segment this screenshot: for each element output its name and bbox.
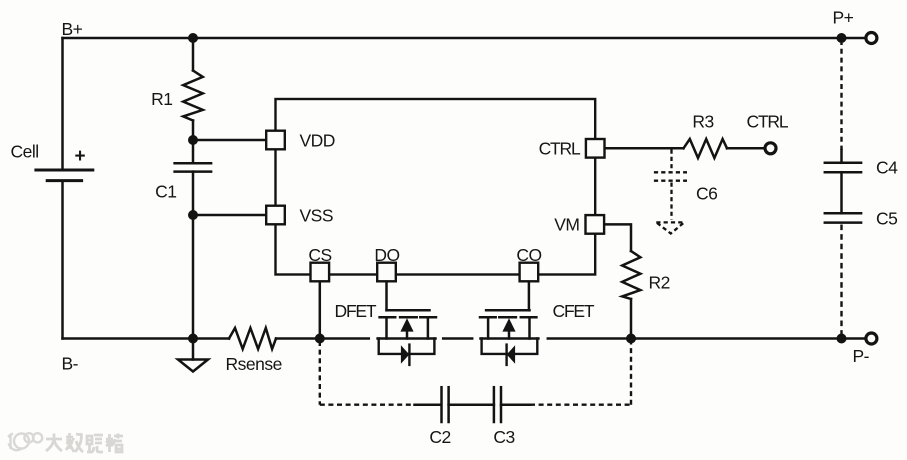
watermark text 大数跨境: [46, 433, 123, 452]
battery cell plates: [36, 170, 93, 181]
node P- junction: [837, 334, 847, 344]
resistor Rsense: [229, 328, 276, 349]
capacitor C4: [825, 163, 861, 172]
svg-text:P+: P+: [833, 8, 854, 28]
wire DO pin to DFET gate: [385, 281, 388, 310]
transistor DFET: [378, 310, 436, 365]
wire C4 to C5: [840, 172, 843, 213]
svg-text:C4: C4: [876, 158, 898, 178]
svg-text:R2: R2: [649, 273, 670, 293]
svg-text:B+: B+: [62, 19, 83, 39]
wire left rail upper (B+ to battery): [61, 38, 64, 169]
node VDD junction: [188, 135, 198, 145]
dashed wire C5 to P- rail: [840, 225, 842, 337]
capacitor C2: [442, 387, 449, 422]
node CS junction: [315, 334, 325, 344]
svg-text:DFET: DFET: [335, 301, 377, 321]
svg-text:Cell: Cell: [11, 142, 39, 162]
capacitor C3: [494, 387, 501, 422]
wire R3 to CTRL terminal: [727, 147, 764, 150]
wire left rail lower (battery to B-): [61, 182, 64, 339]
svg-text:+: +: [75, 146, 86, 167]
pin CS: [311, 263, 330, 282]
node R2/VM junction: [626, 334, 636, 344]
svg-text:B-: B-: [62, 354, 79, 374]
terminal P+: [866, 33, 877, 44]
terminal CTRL: [765, 143, 776, 154]
svg-text:CTRL: CTRL: [539, 139, 581, 159]
pin CO: [520, 263, 539, 282]
svg-text:CTRL: CTRL: [747, 112, 789, 132]
wire into C2: [415, 403, 441, 406]
pin CTRL: [586, 139, 605, 158]
node ground junction: [188, 334, 198, 344]
svg-text:VSS: VSS: [300, 206, 334, 226]
resistor R2: [622, 251, 640, 299]
wire B+ top rail: [63, 37, 865, 40]
svg-text:C5: C5: [876, 209, 897, 229]
watermark logo: [8, 433, 42, 450]
dashed wire CS node down: [319, 341, 321, 405]
node P+ branch dashed wire upper: [840, 40, 842, 150]
dashed wire C3 to R2 node: [530, 404, 631, 406]
wire CO pin to CFET gate: [528, 281, 531, 310]
wire out of C3: [501, 403, 530, 406]
node P+ junction: [837, 33, 847, 43]
capacitor C5: [825, 213, 861, 222]
wire CS pin to bottom rail: [319, 281, 322, 338]
pin DO: [377, 263, 396, 282]
wire CTRL pin to R3: [605, 147, 684, 150]
capacitor C1: [175, 140, 212, 339]
terminal P-: [866, 333, 877, 344]
svg-text:VM: VM: [554, 215, 579, 235]
svg-text:C2: C2: [429, 427, 450, 447]
wire bottom rail CFET to P-: [548, 337, 865, 340]
svg-text:P-: P-: [853, 346, 870, 366]
wire VM pin to R2: [605, 224, 632, 251]
resistor R3: [684, 139, 728, 158]
capacitor C6 (dashed optional): [654, 150, 687, 234]
svg-text:Rsense: Rsense: [226, 354, 282, 374]
svg-text:CFET: CFET: [553, 301, 595, 321]
ground symbol: [178, 339, 208, 372]
svg-text:CS: CS: [308, 245, 331, 265]
resistor R1: [183, 39, 203, 140]
transistor CFET: [480, 310, 538, 365]
svg-text:C6: C6: [696, 184, 717, 204]
wire bottom rail B- to Rsense: [63, 337, 230, 340]
wire C2 to C3: [449, 403, 494, 406]
pin VDD: [266, 131, 285, 150]
wire R2 to bottom rail: [630, 299, 633, 339]
op-amp U1 protection IC body: [276, 99, 596, 275]
node VSS junction: [188, 210, 198, 220]
svg-text:R1: R1: [151, 89, 172, 109]
dashed wire up to R2 node: [630, 341, 632, 405]
pin VSS: [266, 206, 285, 225]
svg-text:C1: C1: [155, 182, 176, 202]
dashed wire to C2: [320, 404, 416, 406]
node B+/R1 junction: [188, 33, 198, 43]
wire VSS node to VSS pin: [193, 214, 266, 217]
svg-text:C3: C3: [493, 427, 514, 447]
svg-text:DO: DO: [374, 245, 399, 265]
svg-text:R3: R3: [692, 112, 713, 132]
svg-text:CO: CO: [516, 245, 541, 265]
wire bottom rail Rsense to DFET: [276, 337, 369, 340]
svg-text:VDD: VDD: [300, 131, 335, 151]
wire lead into C4: [840, 150, 843, 163]
wire bottom rail DFET to CFET: [443, 337, 472, 340]
pin VM: [586, 215, 605, 234]
wire VDD node to VDD pin: [193, 139, 266, 142]
